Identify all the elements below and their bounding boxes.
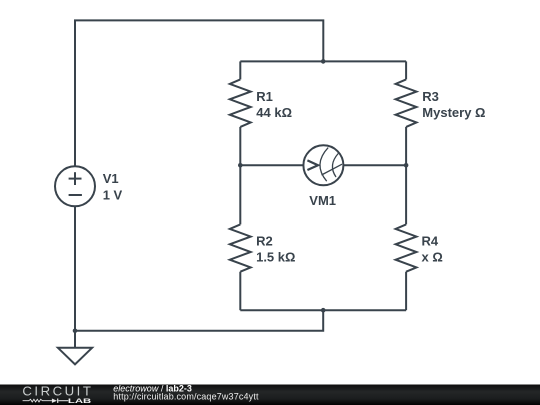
voltmeter VM1: [303, 145, 343, 185]
wire R1 bottom lead: [239, 127, 241, 165]
voltage source V1: [55, 166, 95, 206]
svg-text:R2: R2: [256, 233, 273, 248]
wire middle left: [240, 164, 303, 166]
resistor R3: [396, 79, 417, 127]
wire top feed: V1 top to bridge top node: [75, 20, 323, 166]
wire middle right: [343, 164, 406, 166]
wire V1 bottom to ground junction: [74, 207, 76, 331]
wire R4 bottom lead: [405, 272, 407, 311]
resistor R1: [230, 79, 251, 127]
wire bridge bottom rail: [240, 309, 406, 311]
svg-text:44 kΩ: 44 kΩ: [256, 105, 292, 120]
logo resistor glyph: [23, 399, 52, 402]
label R1 value: [256, 89, 292, 120]
svg-text:Mystery Ω: Mystery Ω: [422, 105, 485, 120]
svg-text:LAB: LAB: [68, 398, 92, 405]
node dot bottom: [321, 308, 326, 313]
resistor R2: [230, 224, 251, 271]
wire R2 top lead: [239, 165, 241, 224]
wire R4 top lead: [405, 165, 407, 224]
svg-text:1 V: 1 V: [103, 187, 123, 202]
node dot mid-right: [404, 163, 409, 168]
node dot top: [321, 59, 326, 64]
label R4 value: [422, 233, 443, 264]
node dot ground junction: [73, 329, 78, 334]
svg-text:CIRCUIT: CIRCUIT: [22, 384, 93, 399]
resistor R4: [396, 224, 417, 271]
svg-text:R4: R4: [422, 233, 439, 248]
logo diode glyph: [52, 399, 58, 403]
wire R1 top lead: [239, 61, 241, 79]
svg-text:x Ω: x Ω: [422, 249, 443, 264]
wire bridge top rail: [240, 60, 406, 62]
svg-text:VM1: VM1: [309, 193, 336, 208]
svg-text:V1: V1: [103, 171, 119, 186]
footer bar: [0, 385, 540, 405]
label V1 value: [103, 171, 123, 202]
node dot mid-left: [238, 163, 243, 168]
wire bottom feed: bottom node to ground rail: [75, 310, 323, 331]
ground: [58, 348, 92, 365]
label R3 value: [422, 89, 485, 120]
svg-text:R3: R3: [422, 89, 439, 104]
wire R3 top lead: [405, 61, 407, 79]
svg-text:http://circuitlab.com/caqe7w37: http://circuitlab.com/caqe7w37c4ytt: [113, 392, 259, 402]
wire R2 bottom lead: [239, 272, 241, 311]
label R2 value: [256, 233, 295, 264]
svg-text:R1: R1: [256, 89, 273, 104]
svg-text:1.5 kΩ: 1.5 kΩ: [256, 249, 295, 264]
wire ground stub: [74, 331, 76, 348]
wire R3 bottom lead: [405, 127, 407, 165]
logo diode-to-LAB wire: [58, 400, 68, 402]
